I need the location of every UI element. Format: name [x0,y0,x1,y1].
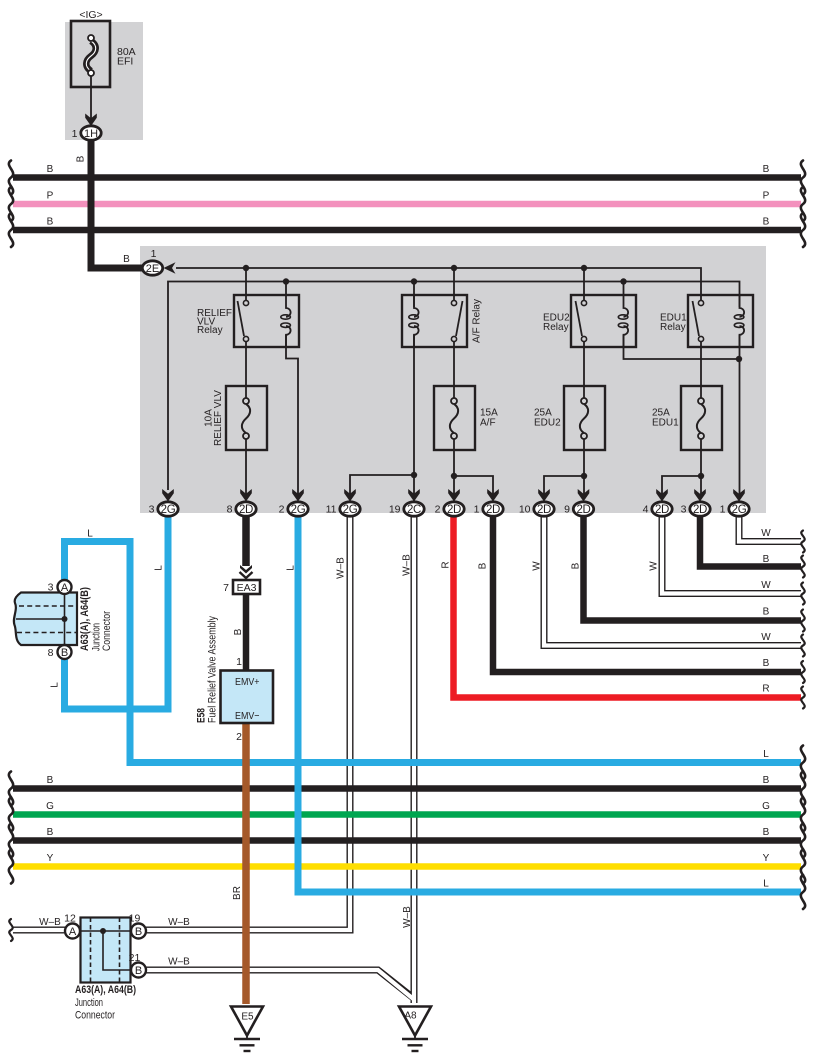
svg-text:2G: 2G [343,504,358,516]
wire line1 from 2E feeding relay switches [176,268,701,300]
svg-text:W: W [761,528,771,539]
svg-text:2D: 2D [447,504,461,516]
relay EDU2 Relay [571,295,636,347]
svg-text:Relay: Relay [197,325,223,336]
svg-text:EMV+: EMV+ [235,676,260,688]
svg-text:W: W [649,561,660,571]
connector 2D pin8 [240,489,252,502]
fuse 25A EDU1 [681,386,722,450]
fuse 10A RELIEF VLV [226,386,267,450]
bus B top [13,174,801,181]
wire W-B from left edge to junction A63 pin 12A [13,516,801,1003]
svg-text:2D: 2D [576,504,590,516]
wire L from 2G-2 down to L bus bottom [298,514,801,892]
svg-text:R: R [441,561,452,568]
wire fuse 80A EFI to 1H [90,76,92,120]
svg-text:Y: Y [763,853,770,864]
relay RELIEF VLV Relay [234,295,299,347]
svg-text:RELIEF VLV: RELIEF VLV [213,390,224,446]
svg-text:B: B [763,658,770,669]
wire A/F switch top feed [453,268,455,300]
svg-text:19: 19 [389,504,401,516]
svg-text:8: 8 [227,504,233,516]
wire EDU2 switch to fuse 25A [583,342,585,398]
svg-text:19: 19 [129,913,141,925]
ground A8 [399,1007,431,1052]
connector 2G pin3 [162,489,174,502]
wire L junction A63 pin3A up over to L bus [65,542,802,763]
svg-text:L: L [286,565,297,571]
wire fuse 15A to 2D-2 and branch 2D-1 [453,439,455,494]
svg-text:2: 2 [435,504,441,516]
svg-text:B: B [135,926,142,938]
wire relay1 coil top feed [285,282,287,297]
junction connector A63(A),A64(B) lower [65,918,146,983]
wire A/F switch to fuse 15A [453,342,455,398]
svg-text:2G: 2G [291,504,306,516]
svg-text:EA3: EA3 [237,582,257,594]
wire W-B junction B19 up to connector 2G-11 [146,516,350,930]
svg-text:3: 3 [681,504,687,516]
relay A/F Relay [402,295,467,347]
junction dots [243,265,742,479]
svg-text:A63(A), A64(B): A63(A), A64(B) [79,587,91,651]
svg-text:E5: E5 [241,1012,254,1023]
svg-text:B: B [763,217,770,228]
wire B from EA3 to EMV+ pin1 [243,594,250,672]
svg-text:P: P [47,191,54,202]
svg-text:2: 2 [236,731,242,743]
break symbols left edge [9,161,13,195]
bus P top [13,201,801,208]
svg-text:2D: 2D [537,504,551,516]
svg-text:L: L [763,749,769,760]
wire EDU2 switch top feed [583,268,585,300]
bus B top2 [13,227,801,234]
connector 2G pin11 [344,489,356,502]
svg-text:B: B [763,164,770,175]
wire W from 2D-4 to right edge [662,516,801,594]
svg-text:1: 1 [474,504,480,516]
svg-text:P: P [763,191,770,202]
svg-text:B: B [47,217,54,228]
svg-text:2D: 2D [655,504,669,516]
svg-text:L: L [763,879,769,890]
svg-text:B: B [233,628,244,635]
gray panel top-left (EFI fuse block) [65,22,143,140]
svg-text:7: 7 [223,582,229,594]
svg-text:3: 3 [149,504,155,516]
svg-text:BR: BR [232,886,243,900]
svg-text:Relay: Relay [660,322,686,333]
wire W from 2G-1 to right edge [739,516,801,542]
svg-text:B: B [763,827,770,838]
svg-text:Relay: Relay [543,322,569,333]
svg-text:2D: 2D [486,504,500,516]
svg-text:B: B [123,254,130,265]
svg-text:W–B: W–B [336,557,347,579]
connector EA3 [233,565,260,594]
svg-text:2E: 2E [146,263,159,275]
wire relay1 switch top feed [245,268,247,300]
wire EDU1 coil down to 2G-1 [739,335,741,494]
connector 2D pin9 [578,489,590,502]
svg-text:L: L [50,682,61,688]
svg-text:1: 1 [151,248,157,260]
wire EDU2 coil top feed [623,282,625,297]
svg-text:2G: 2G [161,504,176,516]
wire BR from EMV- pin2 down to ground E5 [242,722,250,1004]
wire EDU1 switch to fuse 25A EDU1 [700,342,702,398]
svg-text:B: B [763,775,770,786]
wire relay1 coil to 2G-2 [286,335,298,494]
wire B from 2D-3 to right edge [700,514,801,567]
E58 Fuel Relief Valve Assembly (EMV box) [221,671,274,724]
svg-text:2C: 2C [407,504,421,516]
svg-text:W: W [532,561,543,571]
ground E5 [231,1007,263,1052]
svg-text:W–B: W–B [168,957,190,968]
wire fuse 25A EDU1 to 2D-3 and branch 2D-4 [700,439,702,494]
svg-text:L: L [87,529,93,540]
wire A/F relay coil top feed [413,282,415,308]
svg-text:1: 1 [72,128,78,140]
wire W-B junction B21 diagonal to A8 [146,970,414,999]
svg-text:EFI: EFI [117,56,133,68]
wire line2 feeding relay coils and 2G-3 [168,282,740,491]
svg-text:Junction: Junction [75,997,103,1009]
relay EDU1 Relay [688,295,753,347]
wire B from 2D-8 down to EA3 [242,514,250,566]
svg-text:9: 9 [564,504,570,516]
wire EDU2 coil over to EDU1 coil net [624,335,740,359]
wire B thick from 1H through buses to 2E [91,138,142,268]
svg-text:12: 12 [64,913,76,925]
svg-text:2D: 2D [239,504,253,516]
wire B from 2D-9 to right edge [584,514,802,621]
svg-text:B: B [478,562,489,569]
bus Y bottom [13,863,801,870]
svg-text:G: G [46,801,54,812]
wire W from 2D-10 to right edge [544,516,801,646]
svg-text:3: 3 [48,582,54,594]
wire relay1 switch to fuse 10A to 2D-8 [245,342,247,398]
wire L junction pin8B to connector 2G-3 [65,514,169,709]
connector 2D pin3 [694,489,706,502]
connector 2D pin4 [656,489,668,502]
svg-text:2G: 2G [732,504,747,516]
svg-text:A/F: A/F [480,418,496,429]
svg-text:Connector: Connector [101,611,113,651]
svg-text:B: B [76,155,87,162]
svg-text:Fuel Relief Valve Assembly: Fuel Relief Valve Assembly [207,616,219,723]
break symbols right edge [801,161,805,195]
svg-text:A8: A8 [404,1011,417,1022]
svg-text:B: B [61,647,68,659]
connector 2G pin2 [292,489,304,502]
svg-text:W: W [761,632,771,643]
svg-text:B: B [47,827,54,838]
wire fuse 25A EDU2 to 2D-9 and branch 2D-10 [583,439,585,494]
svg-text:A: A [69,926,77,938]
connector 1H with arrow [85,114,97,127]
fuse 15A A/F [434,386,475,450]
svg-text:A63(A), A64(B): A63(A), A64(B) [75,984,136,996]
fuse 80A EFI [71,21,110,87]
wire A/F coil to 2C-19 and branch 2G-11 [413,335,415,505]
connector 2G pin1 [733,489,745,502]
svg-text:W–B: W–B [39,917,61,928]
bus B bottom2 [13,837,801,844]
bus G bottom [13,811,801,818]
svg-text:4: 4 [643,504,649,516]
gray panel relay box [140,246,766,513]
svg-text:EDU2: EDU2 [534,418,561,429]
connector 2E with arrow [142,261,175,275]
svg-text:R: R [762,684,769,695]
svg-text:L: L [154,565,165,571]
svg-text:2D: 2D [693,504,707,516]
connector 2D pin1 [487,489,499,502]
svg-text:A: A [61,582,69,594]
svg-text:B: B [47,164,54,175]
connector 2D pin2 [448,489,460,502]
connector 2D pin10 [538,489,550,502]
connector 2C pin19 [408,489,420,502]
wire W-B connector 2C-19 down to ground A8 [411,516,418,1003]
fuse 25A EDU2 [564,386,605,450]
svg-text:W–B: W–B [168,917,190,928]
svg-text:21: 21 [129,952,141,964]
svg-text:1: 1 [720,504,726,516]
svg-text:11: 11 [326,504,337,516]
svg-text:G: G [762,801,770,812]
svg-text:8: 8 [48,647,54,659]
svg-text:Y: Y [47,853,54,864]
svg-text:B: B [763,607,770,618]
svg-text:B: B [135,965,142,977]
svg-text:W: W [761,580,771,591]
svg-text:Connector: Connector [75,1010,115,1022]
svg-text:10: 10 [519,504,531,516]
svg-text:W–B: W–B [402,554,413,576]
svg-text:1: 1 [236,656,242,668]
svg-text:B: B [47,775,54,786]
svg-text:1H: 1H [84,128,98,140]
svg-text:A/F Relay: A/F Relay [472,299,483,343]
bus B bottom1 [13,785,801,792]
wire B from 2D-1 to right edge [493,514,801,672]
svg-text:W–B: W–B [402,906,413,928]
svg-text:EDU1: EDU1 [652,418,679,429]
svg-text:B: B [763,554,770,565]
svg-text:<IG>: <IG> [79,9,102,21]
svg-text:EMV−: EMV− [235,710,260,722]
svg-text:B: B [571,562,582,569]
wire R from 2D-2 to right edge [454,514,802,698]
svg-text:2: 2 [279,504,285,516]
junction connector A63(A),A64(B) upper [14,580,77,659]
